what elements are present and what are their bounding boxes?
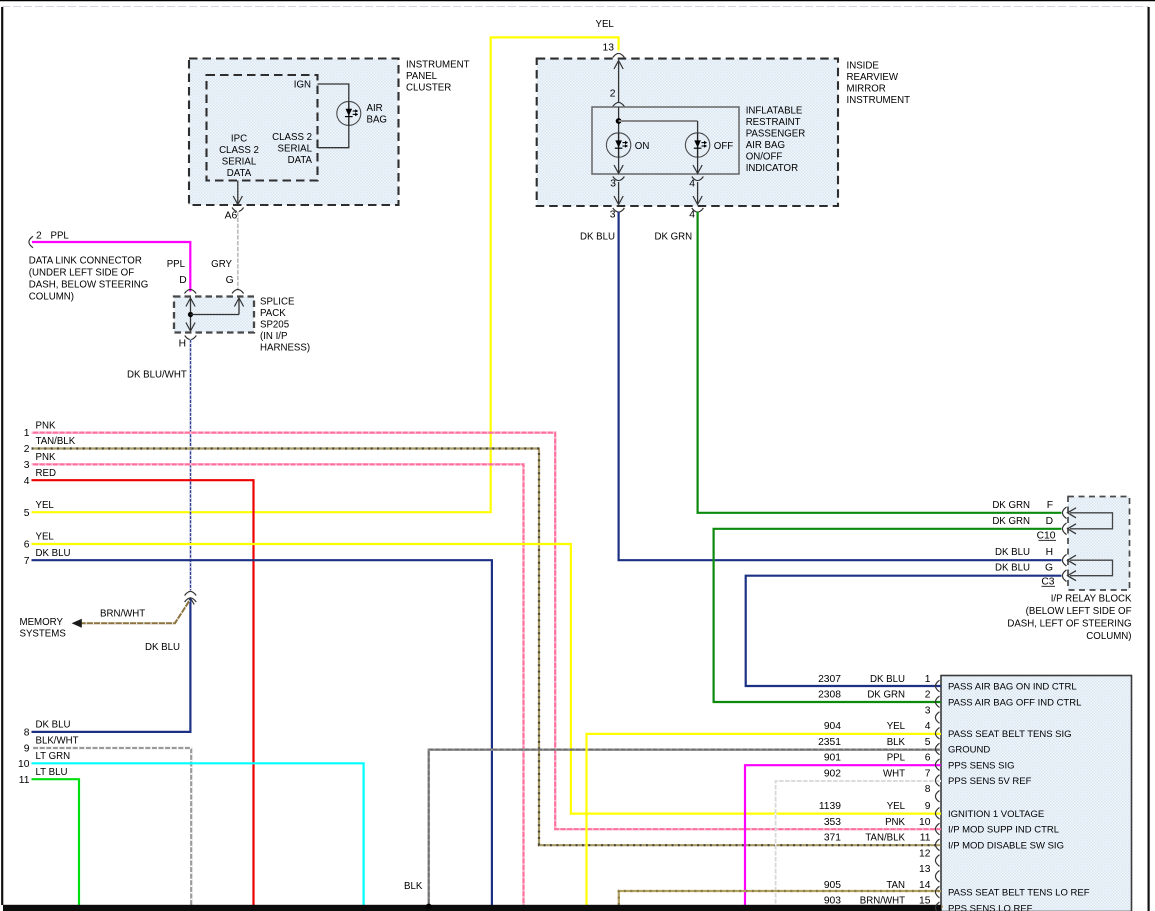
svg-text:DASH, BELOW STEERING: DASH, BELOW STEERING	[29, 280, 149, 291]
svg-text:8: 8	[24, 728, 30, 739]
svg-text:BRN/WHT: BRN/WHT	[860, 896, 905, 907]
svg-text:GRY: GRY	[211, 259, 232, 270]
svg-text:901: 901	[824, 753, 841, 764]
svg-text:3: 3	[925, 705, 931, 716]
svg-text:905: 905	[824, 880, 841, 891]
svg-text:1: 1	[925, 674, 931, 685]
svg-text:LT GRN: LT GRN	[36, 751, 71, 762]
svg-text:COLUMN): COLUMN)	[1086, 631, 1131, 642]
svg-text:RED: RED	[36, 468, 56, 479]
svg-text:11: 11	[19, 775, 30, 786]
svg-text:YEL: YEL	[887, 721, 906, 732]
svg-text:13: 13	[919, 864, 931, 875]
svg-text:BLK/WHT: BLK/WHT	[36, 736, 79, 747]
svg-text:DASH, LEFT OF STEERING: DASH, LEFT OF STEERING	[1007, 619, 1131, 630]
svg-text:3: 3	[610, 209, 616, 220]
svg-text:4: 4	[24, 476, 30, 487]
svg-text:PNK: PNK	[885, 817, 905, 828]
svg-text:HARNESS): HARNESS)	[260, 343, 310, 354]
svg-text:2: 2	[36, 230, 42, 241]
svg-text:DK BLU/WHT: DK BLU/WHT	[127, 369, 187, 380]
svg-text:IGNITION 1 VOLTAGE: IGNITION 1 VOLTAGE	[948, 809, 1044, 820]
svg-text:2: 2	[610, 89, 616, 100]
svg-text:DATA LINK CONNECTOR: DATA LINK CONNECTOR	[29, 256, 142, 267]
svg-text:15: 15	[919, 896, 931, 907]
svg-text:5: 5	[925, 737, 931, 748]
svg-text:H: H	[179, 338, 186, 349]
svg-text:INDICATOR: INDICATOR	[746, 163, 798, 174]
svg-text:PASS SEAT BELT TENS SIG: PASS SEAT BELT TENS SIG	[948, 729, 1072, 740]
svg-text:COLUMN): COLUMN)	[29, 292, 74, 303]
svg-text:9: 9	[24, 744, 30, 755]
svg-text:SERIAL: SERIAL	[222, 157, 257, 168]
svg-text:D: D	[179, 275, 186, 286]
svg-text:LT BLU: LT BLU	[36, 767, 68, 778]
svg-text:INFLATABLE: INFLATABLE	[746, 106, 803, 117]
svg-text:2: 2	[925, 690, 931, 701]
svg-text:PASSENGER: PASSENGER	[746, 129, 806, 140]
svg-text:INSTRUMENT: INSTRUMENT	[847, 95, 911, 106]
svg-text:903: 903	[824, 896, 841, 907]
svg-text:TAN/BLK: TAN/BLK	[865, 833, 905, 844]
svg-text:BAG: BAG	[367, 115, 387, 126]
svg-text:PASS AIR BAG ON IND CTRL: PASS AIR BAG ON IND CTRL	[948, 682, 1077, 693]
svg-text:OFF: OFF	[714, 141, 733, 152]
svg-text:4: 4	[689, 179, 695, 190]
svg-text:F: F	[1047, 500, 1053, 511]
svg-text:PASS AIR BAG OFF IND CTRL: PASS AIR BAG OFF IND CTRL	[948, 697, 1081, 708]
svg-text:INSTRUMENT: INSTRUMENT	[406, 60, 470, 71]
svg-text:DK BLU: DK BLU	[36, 548, 71, 559]
svg-text:G: G	[1045, 563, 1053, 574]
svg-text:DATA: DATA	[227, 168, 252, 179]
svg-text:9: 9	[925, 801, 931, 812]
svg-text:2307: 2307	[818, 674, 841, 685]
svg-text:G: G	[226, 275, 234, 286]
svg-text:13: 13	[603, 43, 615, 54]
svg-text:INSIDE: INSIDE	[847, 61, 880, 72]
svg-text:6: 6	[925, 753, 931, 764]
svg-text:CLASS 2: CLASS 2	[272, 132, 312, 143]
svg-text:PPL: PPL	[167, 259, 186, 270]
svg-text:3: 3	[24, 460, 30, 471]
svg-text:C10: C10	[1037, 531, 1056, 542]
svg-text:YEL: YEL	[36, 500, 55, 511]
svg-text:WHT: WHT	[883, 768, 905, 779]
svg-text:371: 371	[824, 833, 841, 844]
svg-text:YEL: YEL	[887, 801, 906, 812]
svg-text:YEL: YEL	[36, 532, 55, 543]
svg-text:DK GRN: DK GRN	[992, 516, 1030, 527]
svg-text:PNK: PNK	[36, 420, 56, 431]
svg-text:D: D	[1046, 516, 1053, 527]
svg-text:BRN/WHT: BRN/WHT	[100, 609, 145, 620]
svg-text:SP205: SP205	[260, 320, 289, 331]
svg-text:H: H	[1046, 547, 1053, 558]
svg-text:4: 4	[925, 721, 931, 732]
svg-text:(IN I/P: (IN I/P	[260, 331, 287, 342]
svg-text:CLASS 2: CLASS 2	[219, 145, 259, 156]
svg-text:(UNDER LEFT SIDE OF: (UNDER LEFT SIDE OF	[29, 268, 134, 279]
svg-text:TAN: TAN	[886, 880, 905, 891]
svg-text:PNK: PNK	[36, 452, 56, 463]
svg-text:10: 10	[919, 817, 931, 828]
svg-text:CLUSTER: CLUSTER	[406, 83, 451, 94]
svg-text:10: 10	[18, 759, 30, 770]
svg-text:BLK: BLK	[887, 737, 906, 748]
svg-text:DK BLU: DK BLU	[995, 547, 1030, 558]
svg-text:PACK: PACK	[260, 308, 286, 319]
svg-text:11: 11	[920, 833, 931, 844]
svg-text:I/P MOD DISABLE SW SIG: I/P MOD DISABLE SW SIG	[948, 840, 1064, 851]
svg-text:DK GRN: DK GRN	[992, 500, 1030, 511]
svg-text:902: 902	[824, 768, 841, 779]
svg-text:IGN: IGN	[294, 80, 311, 91]
svg-text:PPS SENS SIG: PPS SENS SIG	[948, 760, 1015, 771]
svg-text:4: 4	[689, 209, 695, 220]
svg-text:353: 353	[824, 817, 841, 828]
svg-text:PPL: PPL	[887, 753, 906, 764]
svg-text:SPLICE: SPLICE	[260, 297, 295, 308]
svg-text:PASS SEAT BELT TENS LO REF: PASS SEAT BELT TENS LO REF	[948, 888, 1090, 899]
svg-text:DATA: DATA	[288, 155, 313, 166]
svg-text:7: 7	[24, 556, 30, 567]
svg-text:ON/OFF: ON/OFF	[746, 152, 783, 163]
svg-text:DK BLU: DK BLU	[580, 232, 615, 243]
svg-text:5: 5	[24, 508, 30, 519]
svg-text:1139: 1139	[819, 801, 841, 812]
svg-text:PPL: PPL	[51, 230, 70, 241]
svg-text:PPS SENS LO REF: PPS SENS LO REF	[948, 903, 1033, 911]
svg-text:AIR: AIR	[367, 103, 383, 114]
svg-text:C3: C3	[1041, 577, 1054, 588]
svg-text:DK GRN: DK GRN	[867, 690, 905, 701]
svg-text:(BELOW LEFT SIDE OF: (BELOW LEFT SIDE OF	[1026, 606, 1132, 617]
svg-text:8: 8	[925, 784, 931, 795]
svg-text:PPS SENS 5V REF: PPS SENS 5V REF	[948, 776, 1032, 787]
svg-text:SYSTEMS: SYSTEMS	[20, 628, 67, 639]
svg-text:904: 904	[824, 721, 841, 732]
svg-text:ON: ON	[635, 141, 650, 152]
svg-text:I/P MOD SUPP IND CTRL: I/P MOD SUPP IND CTRL	[948, 825, 1059, 836]
svg-text:6: 6	[24, 540, 30, 551]
svg-text:IPC: IPC	[231, 134, 247, 145]
svg-text:2308: 2308	[818, 690, 841, 701]
svg-text:DK BLU: DK BLU	[36, 720, 71, 731]
svg-text:MIRROR: MIRROR	[847, 84, 886, 95]
svg-text:DK GRN: DK GRN	[655, 232, 693, 243]
svg-text:I/P RELAY BLOCK: I/P RELAY BLOCK	[1051, 594, 1132, 605]
svg-text:3: 3	[610, 179, 616, 190]
svg-text:1: 1	[24, 428, 30, 439]
svg-text:14: 14	[919, 880, 931, 891]
svg-text:12: 12	[919, 848, 931, 859]
svg-text:DK BLU: DK BLU	[995, 563, 1030, 574]
svg-text:AIR BAG: AIR BAG	[746, 140, 785, 151]
svg-text:RESTRAINT: RESTRAINT	[746, 117, 801, 128]
svg-text:TAN/BLK: TAN/BLK	[36, 436, 76, 447]
svg-text:2351: 2351	[818, 737, 841, 748]
svg-text:DK BLU: DK BLU	[870, 674, 905, 685]
svg-text:REARVIEW: REARVIEW	[847, 72, 899, 83]
svg-text:PANEL: PANEL	[406, 71, 438, 82]
svg-text:7: 7	[925, 768, 931, 779]
svg-text:GROUND: GROUND	[948, 745, 990, 756]
svg-text:BLK: BLK	[404, 881, 423, 892]
svg-text:SERIAL: SERIAL	[278, 144, 313, 155]
svg-text:MEMORY: MEMORY	[20, 617, 64, 628]
svg-text:A6: A6	[225, 210, 238, 221]
svg-text:DK BLU: DK BLU	[145, 642, 180, 653]
svg-text:YEL: YEL	[596, 19, 615, 30]
svg-text:2: 2	[24, 444, 30, 455]
